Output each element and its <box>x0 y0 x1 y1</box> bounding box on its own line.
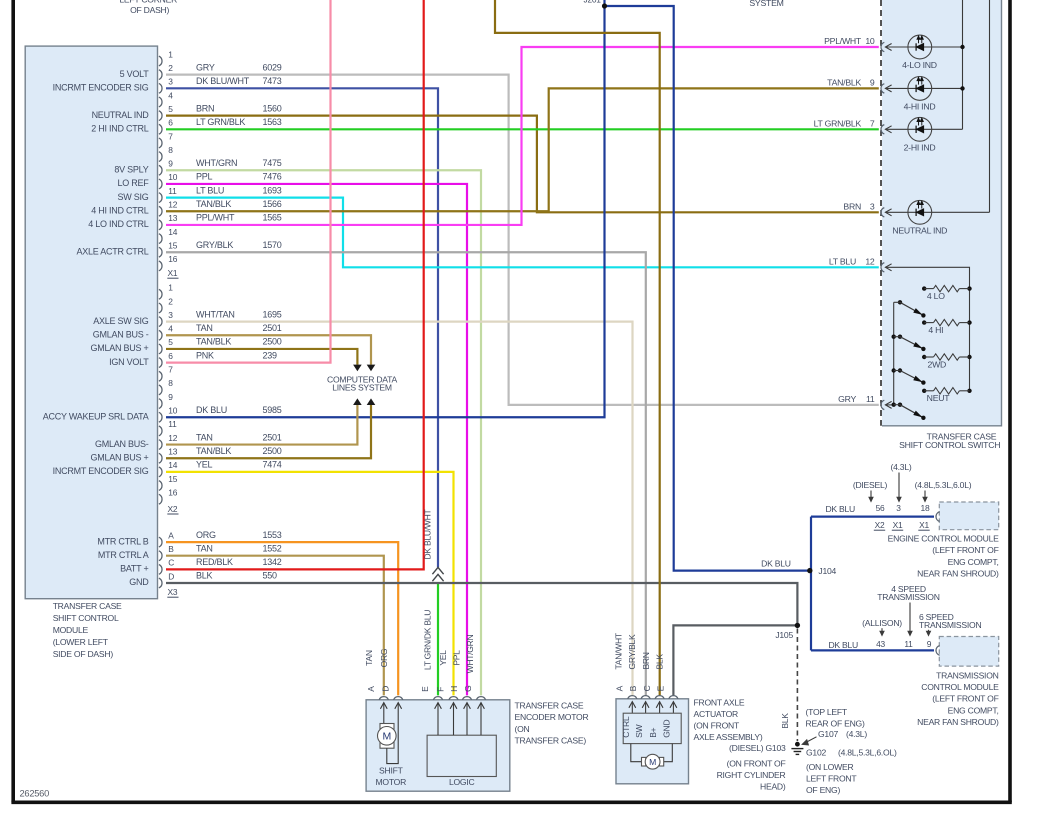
svg-text:MOTOR: MOTOR <box>376 777 407 787</box>
actuator pin arrows <box>629 702 677 714</box>
svg-text:LEFT FRONT: LEFT FRONT <box>806 774 857 784</box>
svg-text:E: E <box>420 686 430 692</box>
svg-text:D: D <box>380 686 390 692</box>
svg-text:5: 5 <box>168 337 173 347</box>
svg-text:LOGIC: LOGIC <box>449 777 475 787</box>
wire BRN 1560 to neutral indicator <box>166 116 879 213</box>
computer data lines system label <box>327 374 397 392</box>
svg-text:LT GRN/DK BLU: LT GRN/DK BLU <box>422 610 432 670</box>
svg-text:5: 5 <box>168 104 173 114</box>
svg-text:TRANSFER CASE): TRANSFER CASE) <box>515 736 587 746</box>
TCM name label <box>917 670 999 727</box>
encoder pin arrows <box>380 703 484 709</box>
svg-text:C: C <box>168 558 174 568</box>
svg-text:SW: SW <box>634 724 644 737</box>
svg-text:1342: 1342 <box>263 557 282 567</box>
module connector X2 pins 1-16 <box>159 283 179 514</box>
svg-text:6: 6 <box>168 118 173 128</box>
svg-text:6029: 6029 <box>263 62 282 72</box>
svg-text:4: 4 <box>168 324 173 334</box>
wire GRY/BLK 1570 to axle actuator pin B <box>166 252 646 695</box>
TCM transmission variant labels with arrows <box>862 584 981 636</box>
svg-text:4-HI IND: 4-HI IND <box>904 102 936 112</box>
arrow to computer data lines lower left <box>353 398 362 405</box>
svg-text:GND: GND <box>129 577 149 587</box>
svg-text:LINES SYSTEM: LINES SYSTEM <box>332 383 392 393</box>
svg-text:SHIFT CONTROL SWITCH: SHIFT CONTROL SWITCH <box>899 440 1000 450</box>
svg-text:BLK: BLK <box>780 713 790 729</box>
svg-text:7: 7 <box>168 131 173 141</box>
svg-text:239: 239 <box>263 350 278 360</box>
svg-text:B: B <box>168 544 174 554</box>
encoder pin letters <box>366 685 473 691</box>
svg-text:PPL: PPL <box>451 650 461 666</box>
svg-text:2: 2 <box>168 63 173 73</box>
svg-text:GRY: GRY <box>838 394 856 404</box>
svg-text:X1: X1 <box>893 520 903 530</box>
svg-text:9: 9 <box>927 639 932 649</box>
svg-text:MODULE: MODULE <box>53 625 89 635</box>
actuator pin arcs <box>628 696 678 699</box>
svg-text:1693: 1693 <box>263 185 282 195</box>
wire TAN 1552 to shift motor pin A <box>166 556 384 696</box>
svg-text:X1: X1 <box>168 268 178 278</box>
svg-text:(ON LOWER: (ON LOWER <box>806 762 853 772</box>
arrow to computer data lines upper left <box>353 365 362 372</box>
svg-text:3: 3 <box>168 77 173 87</box>
svg-text:NEUT: NEUT <box>927 393 951 403</box>
node 4-LO riser junction <box>960 45 964 49</box>
module name label <box>53 601 122 659</box>
wire PPL/WHT 1565 to 4-LO indicator <box>166 47 879 225</box>
svg-text:AXLE ACTR CTRL: AXLE ACTR CTRL <box>76 246 148 256</box>
svg-text:HEAD): HEAD) <box>760 782 786 792</box>
svg-text:OF ENG): OF ENG) <box>806 785 840 795</box>
svg-text:14: 14 <box>168 227 177 237</box>
svg-text:G102: G102 <box>806 748 826 758</box>
wire TAN 2501 gmlan bus- lower <box>166 405 357 445</box>
ECM pin numbers and connector ids <box>874 503 930 530</box>
svg-text:(LEFT FRONT OF: (LEFT FRONT OF <box>932 545 998 555</box>
switch wiper contact at y=336.7 <box>892 335 926 352</box>
svg-text:43: 43 <box>876 639 885 649</box>
ECM engine variant labels with arrows <box>853 462 972 503</box>
svg-text:SHIFT: SHIFT <box>379 765 404 775</box>
svg-text:SIDE OF DASH): SIDE OF DASH) <box>53 649 114 659</box>
svg-text:ENG COMPT,: ENG COMPT, <box>948 705 999 715</box>
transfer case encoder motor box <box>366 700 510 791</box>
wire YEL 7474 to encoder pin F <box>166 472 454 696</box>
svg-text:BRN: BRN <box>641 652 651 669</box>
svg-text:3: 3 <box>896 503 901 513</box>
svg-text:2500: 2500 <box>263 446 282 456</box>
wire labels X2 <box>196 309 282 469</box>
svg-text:11: 11 <box>168 186 177 196</box>
module signal name labels X2 <box>43 316 149 476</box>
svg-text:A: A <box>168 530 174 540</box>
wire BLK 550 ground to J105 <box>166 583 797 625</box>
svg-text:1560: 1560 <box>263 103 282 113</box>
wire WHT/TAN 1695 to axle actuator pin A <box>166 322 633 696</box>
svg-text:BLK: BLK <box>655 654 665 670</box>
svg-text:(ON FRONT OF: (ON FRONT OF <box>727 758 786 768</box>
switch resistor 2WD <box>922 354 972 370</box>
node J104 <box>807 568 812 573</box>
svg-text:15: 15 <box>168 474 177 484</box>
svg-text:G: G <box>463 685 473 691</box>
svg-text:9: 9 <box>168 392 173 402</box>
wire DK BLU junction feed to J104 <box>605 6 810 571</box>
svg-text:(ON FRONT: (ON FRONT <box>694 721 740 731</box>
switch resistor NEUT <box>922 388 972 404</box>
svg-text:LT BLU: LT BLU <box>829 257 856 267</box>
svg-text:(4.8L,5.3L,6.0L): (4.8L,5.3L,6.0L) <box>915 480 972 490</box>
svg-text:M: M <box>649 757 656 767</box>
svg-text:15: 15 <box>168 241 177 251</box>
svg-text:1695: 1695 <box>263 309 282 319</box>
svg-text:10: 10 <box>865 36 875 46</box>
dashed BLK wire J105 to ground <box>796 629 798 742</box>
switch resistor 4 LO <box>922 285 972 301</box>
svg-text:DK BLU: DK BLU <box>196 405 227 415</box>
svg-text:GMLAN BUS +: GMLAN BUS + <box>90 343 148 353</box>
svg-text:11: 11 <box>168 419 177 429</box>
svg-text:2WD: 2WD <box>928 359 947 369</box>
svg-text:E: E <box>656 685 666 691</box>
neutral ind riser <box>989 0 991 212</box>
svg-text:5985: 5985 <box>263 405 282 415</box>
svg-text:TRANSFER CASE: TRANSFER CASE <box>53 601 122 611</box>
wire GRY 6029 5-volt feed <box>166 75 879 405</box>
svg-text:ORG: ORG <box>379 649 389 668</box>
svg-text:2501: 2501 <box>263 432 282 442</box>
svg-text:1570: 1570 <box>263 240 282 250</box>
svg-text:WHT/GRN: WHT/GRN <box>196 158 237 168</box>
wire BLK from axle actuator pin E to J105 <box>673 625 797 695</box>
svg-text:TRANSMISSION: TRANSMISSION <box>877 592 939 602</box>
encoder pin arcs <box>379 697 485 700</box>
svg-text:3: 3 <box>168 310 173 320</box>
svg-text:SYSTEM: SYSTEM <box>749 0 783 8</box>
svg-text:2500: 2500 <box>263 337 282 347</box>
svg-text:NEAR FAN SHROUD): NEAR FAN SHROUD) <box>917 569 999 579</box>
svg-text:WHT/GRN: WHT/GRN <box>465 634 475 673</box>
svg-text:12: 12 <box>168 433 177 443</box>
svg-text:(ON: (ON <box>515 724 530 734</box>
svg-text:BATT +: BATT + <box>120 564 148 574</box>
svg-text:ORG: ORG <box>196 530 216 540</box>
svg-text:INCRMT ENCODER SIG: INCRMT ENCODER SIG <box>53 83 149 93</box>
indicator 2-HI IND pin 7 <box>814 117 963 152</box>
arrow to computer data lines lower right <box>367 398 376 405</box>
svg-text:H: H <box>449 686 459 692</box>
svg-text:DK BLU: DK BLU <box>828 640 858 650</box>
svg-text:(LOWER LEFT: (LOWER LEFT <box>53 637 109 647</box>
svg-text:DK BLU: DK BLU <box>825 504 855 514</box>
svg-text:11: 11 <box>866 394 875 404</box>
wire BRN b-plus feed from top to actuator pin C <box>495 0 660 695</box>
svg-text:13: 13 <box>168 447 177 457</box>
svg-text:NEAR FAN SHROUD): NEAR FAN SHROUD) <box>917 717 999 727</box>
svg-text:TRANSMISSION: TRANSMISSION <box>936 670 998 680</box>
svg-text:7: 7 <box>870 119 875 129</box>
svg-text:18: 18 <box>921 503 930 513</box>
svg-text:(TOP LEFT: (TOP LEFT <box>806 707 848 717</box>
svg-text:6: 6 <box>168 351 173 361</box>
svg-text:(LEFT FRONT OF: (LEFT FRONT OF <box>932 694 998 704</box>
svg-text:(DIESEL) G103: (DIESEL) G103 <box>729 743 786 753</box>
svg-text:ENG COMPT,: ENG COMPT, <box>948 557 999 567</box>
svg-text:13: 13 <box>168 213 177 223</box>
svg-text:SW SIG: SW SIG <box>117 192 148 202</box>
svg-text:7476: 7476 <box>263 172 282 182</box>
engine control module dashed box <box>939 502 998 530</box>
svg-text:LT BLU: LT BLU <box>196 185 224 195</box>
svg-text:INCRMT ENCODER SIG: INCRMT ENCODER SIG <box>53 466 149 476</box>
ECM name label <box>888 534 999 579</box>
svg-text:56: 56 <box>876 503 885 513</box>
wire LT GRN/BLK 1563 to 2-HI indicator <box>166 128 879 130</box>
svg-text:AXLE SW SIG: AXLE SW SIG <box>93 316 149 326</box>
actuator terminal block <box>621 713 681 743</box>
svg-text:NEUTRAL IND: NEUTRAL IND <box>92 110 150 120</box>
svg-text:9: 9 <box>168 159 173 169</box>
module connector X3 pins A-D <box>159 530 179 597</box>
switch resistor 4 HI <box>922 319 972 335</box>
svg-text:B+: B+ <box>648 727 658 737</box>
svg-text:J201: J201 <box>584 0 602 4</box>
module signal name labels X3 <box>97 536 149 587</box>
svg-text:MTR CTRL A: MTR CTRL A <box>98 550 149 560</box>
svg-text:TAN: TAN <box>364 650 374 666</box>
wire LT BLU 1693 switch signal <box>166 198 879 268</box>
logic block <box>427 703 496 787</box>
svg-text:TAN: TAN <box>196 323 213 333</box>
svg-text:ENCODER MOTOR: ENCODER MOTOR <box>515 712 589 722</box>
svg-text:11: 11 <box>904 639 913 649</box>
svg-text:DK BLU/WHT: DK BLU/WHT <box>422 509 432 559</box>
svg-text:CONTROL MODULE: CONTROL MODULE <box>921 682 999 692</box>
dashed connector boundary line <box>880 0 882 426</box>
svg-text:IGN VOLT: IGN VOLT <box>109 357 149 367</box>
svg-text:4 HI: 4 HI <box>928 325 943 335</box>
svg-text:ACCY WAKEUP SRL DATA: ACCY WAKEUP SRL DATA <box>43 411 149 421</box>
wire PNK 239 ign volt from top <box>166 0 331 363</box>
svg-text:A: A <box>366 686 376 692</box>
svg-text:RIGHT CYLINDER: RIGHT CYLINDER <box>717 770 786 780</box>
transmission control module dashed box <box>939 637 998 667</box>
svg-text:YEL: YEL <box>438 650 448 666</box>
switch signal pin LT BLU 12 <box>829 257 970 391</box>
svg-text:5 VOLT: 5 VOLT <box>120 69 150 79</box>
svg-text:FRONT AXLE: FRONT AXLE <box>694 697 745 707</box>
svg-text:X3: X3 <box>168 587 178 597</box>
svg-text:GMLAN BUS-: GMLAN BUS- <box>95 439 149 449</box>
actuator rotated wire labels <box>614 633 665 669</box>
node 4-HI riser junction <box>960 86 964 90</box>
svg-text:LO REF: LO REF <box>117 178 149 188</box>
wire LT GRN/DK BLU to encoder pin E <box>437 583 439 695</box>
svg-text:F: F <box>436 687 446 692</box>
module connector X1 pins 1-16 <box>159 49 179 278</box>
svg-text:J105: J105 <box>775 630 793 640</box>
svg-text:2-HI IND: 2-HI IND <box>904 143 936 153</box>
switch wiper common rail <box>893 302 895 405</box>
wire labels X1 <box>196 62 282 250</box>
svg-text:WHT/TAN: WHT/TAN <box>196 309 235 319</box>
svg-text:8: 8 <box>168 145 173 155</box>
svg-text:REAR OF ENG): REAR OF ENG) <box>806 719 865 729</box>
node splice on dk blu at top (J201) <box>602 3 607 8</box>
wire ORG 1553 to shift motor pin D <box>166 542 398 695</box>
svg-text:BRN: BRN <box>843 202 861 212</box>
indicator 4-HI IND pin 9 <box>827 77 962 112</box>
transfer case shift control switch box <box>882 0 1002 426</box>
svg-text:DK BLU/WHT: DK BLU/WHT <box>196 76 250 86</box>
svg-text:1565: 1565 <box>263 213 282 223</box>
svg-text:GRY/BLK: GRY/BLK <box>196 240 233 250</box>
svg-text:PPL: PPL <box>196 172 213 182</box>
svg-text:(4.3L): (4.3L) <box>846 729 867 739</box>
svg-text:7474: 7474 <box>263 460 282 470</box>
svg-text:10: 10 <box>168 406 177 416</box>
svg-text:8V SPLY: 8V SPLY <box>114 164 148 174</box>
svg-text:RED/BLK: RED/BLK <box>196 557 233 567</box>
svg-text:G107: G107 <box>818 729 838 739</box>
actuator motor symbol <box>631 744 673 770</box>
svg-text:16: 16 <box>168 488 177 498</box>
svg-text:4: 4 <box>168 90 173 100</box>
wire TAN/BLK 2500 gmlan bus+ lower <box>166 405 371 458</box>
svg-text:1566: 1566 <box>263 199 282 209</box>
svg-text:4 LO: 4 LO <box>927 291 945 301</box>
svg-text:LEFT CORNER: LEFT CORNER <box>119 0 177 5</box>
svg-text:1553: 1553 <box>263 530 282 540</box>
svg-text:4-LO IND: 4-LO IND <box>902 60 937 70</box>
svg-text:2 HI IND CTRL: 2 HI IND CTRL <box>91 124 149 134</box>
svg-text:J104: J104 <box>818 566 836 576</box>
transfer case shift control module box <box>25 46 157 599</box>
svg-text:1552: 1552 <box>263 543 282 553</box>
svg-text:PPL/WHT: PPL/WHT <box>196 213 235 223</box>
svg-text:10: 10 <box>168 172 177 182</box>
svg-text:LT GRN/BLK: LT GRN/BLK <box>196 117 245 127</box>
svg-text:TAN: TAN <box>196 432 213 442</box>
svg-text:16: 16 <box>168 254 177 264</box>
svg-text:NEUTRAL IND: NEUTRAL IND <box>892 226 947 236</box>
svg-text:12: 12 <box>168 200 177 210</box>
partial label upper-left (lower left corner of dash) <box>119 0 177 15</box>
wire TAN/BLK 2500 gmlan bus+ upper <box>166 349 357 365</box>
front axle actuator box <box>616 699 689 784</box>
TCM pin numbers <box>876 639 932 649</box>
svg-text:PPL/WHT: PPL/WHT <box>824 36 862 46</box>
svg-text:TAN/BLK: TAN/BLK <box>196 337 231 347</box>
svg-text:7473: 7473 <box>263 76 282 86</box>
actuator name label <box>694 697 763 742</box>
wire labels X3 <box>196 530 282 581</box>
actuator pin letters <box>615 685 666 691</box>
wire WHT/GRN 7475 to encoder pin G <box>166 170 481 695</box>
svg-text:MTR CTRL B: MTR CTRL B <box>97 536 148 546</box>
svg-text:LT GRN/BLK: LT GRN/BLK <box>814 119 862 129</box>
svg-text:CTRL: CTRL <box>621 716 631 738</box>
arrow to computer data lines upper right <box>367 365 376 372</box>
switch wiper contact at y=370.5 <box>892 368 926 385</box>
svg-text:1: 1 <box>168 49 173 59</box>
svg-text:ENGINE CONTROL MODULE: ENGINE CONTROL MODULE <box>888 534 999 544</box>
svg-text:262560: 262560 <box>20 789 50 799</box>
svg-text:TAN/BLK: TAN/BLK <box>827 78 861 88</box>
encoder motor name label <box>515 700 589 745</box>
svg-text:2: 2 <box>168 296 173 306</box>
svg-text:12: 12 <box>865 257 875 267</box>
wire PPL 7476 to encoder pin H <box>166 184 467 695</box>
svg-text:X1: X1 <box>919 520 929 530</box>
svg-text:4 HI IND CTRL: 4 HI IND CTRL <box>91 205 149 215</box>
svg-text:(4.8L,5.3L,6.OL): (4.8L,5.3L,6.OL) <box>838 748 897 758</box>
switch name label <box>899 432 1000 451</box>
wire TAN 2501 gmlan bus- upper <box>166 335 371 365</box>
svg-text:TRANSMISSION: TRANSMISSION <box>919 620 981 630</box>
svg-text:PNK: PNK <box>196 350 214 360</box>
svg-text:1563: 1563 <box>263 117 282 127</box>
svg-text:GRY: GRY <box>196 62 215 72</box>
svg-text:C: C <box>642 685 652 691</box>
svg-text:M: M <box>383 731 392 743</box>
wire DK BLU 5985 accy wakeup srl data <box>166 0 605 417</box>
ground labels <box>717 707 897 795</box>
ground symbol G102/G103 <box>791 742 803 755</box>
module signal name labels X1 <box>53 69 150 257</box>
svg-text:TRANSFER CASE: TRANSFER CASE <box>515 700 584 710</box>
switch wiper feed pin GRY 11 <box>838 394 894 410</box>
svg-text:(4.3L): (4.3L) <box>891 462 912 472</box>
svg-text:SHIFT CONTROL: SHIFT CONTROL <box>53 613 119 623</box>
svg-text:ACTUATOR: ACTUATOR <box>694 709 739 719</box>
shift motor symbol <box>378 703 399 764</box>
svg-text:DK BLU: DK BLU <box>761 558 791 568</box>
switch wiper contact at y=302.3 <box>894 300 926 318</box>
svg-text:TAN/BLK: TAN/BLK <box>196 446 231 456</box>
ECM pin arc <box>936 512 940 522</box>
shift motor label <box>376 765 407 786</box>
svg-text:AXLE ASSEMBLY): AXLE ASSEMBLY) <box>694 732 763 742</box>
node J105 <box>795 623 800 628</box>
svg-text:7: 7 <box>168 365 173 375</box>
arrow from G107 label to ground <box>802 737 816 745</box>
indicator NEUTRAL IND pin 3 <box>843 200 989 235</box>
svg-text:1: 1 <box>168 283 173 293</box>
svg-text:D: D <box>168 571 174 581</box>
svg-text:GMLAN BUS -: GMLAN BUS - <box>93 329 149 339</box>
cluster feed riser to dimmer (left) <box>962 0 964 129</box>
wire RED/BLK 1342 batt feed from top <box>166 0 424 569</box>
svg-text:BLK: BLK <box>196 571 213 581</box>
svg-text:X2: X2 <box>875 520 885 530</box>
svg-text:A: A <box>615 685 625 691</box>
wire DK BLU/WHT 7473 <box>166 88 438 567</box>
svg-text:GRY/BLK: GRY/BLK <box>627 634 637 670</box>
wire DK BLU trunk J104 to ECM and TCM <box>810 517 812 651</box>
svg-text:4 LO IND CTRL: 4 LO IND CTRL <box>88 219 149 229</box>
switch wiper contact at y=404.7 <box>892 403 926 420</box>
splice chevrons on encoder sig wire <box>432 567 443 581</box>
wire TAN/BLK 1566 to 4-HI indicator <box>166 88 879 211</box>
svg-text:B: B <box>628 685 638 691</box>
svg-text:X2: X2 <box>168 504 178 514</box>
svg-text:YEL: YEL <box>196 460 213 470</box>
